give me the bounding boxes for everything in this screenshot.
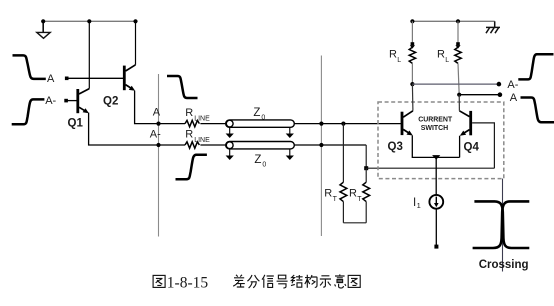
caption char yi (意) bbox=[335, 274, 346, 288]
input terminal A bbox=[65, 77, 69, 81]
wire Q4 base return bbox=[366, 167, 494, 169]
reference plane line 1 bbox=[158, 74, 160, 237]
node RT2 / Q4 base return bbox=[364, 166, 368, 170]
wire Q2 collector riser bbox=[135, 21, 137, 65]
transistor Q2 bbox=[123, 65, 136, 91]
svg-text:1-8-15: 1-8-15 bbox=[167, 275, 209, 292]
resistor RT1 bbox=[340, 124, 347, 223]
node TL1/plane2 bbox=[319, 122, 323, 126]
wire RL1 to Q3 collector bbox=[411, 84, 414, 111]
wire Q1 collector riser bbox=[88, 21, 90, 88]
wire TL1 to Q3 base bbox=[294, 123, 401, 125]
terminal A- out bbox=[497, 82, 502, 87]
wire Q3 emitter to common node bbox=[412, 136, 459, 158]
node A on plane 1 bbox=[156, 122, 160, 126]
wire input A to Q2 base bbox=[67, 77, 123, 79]
waveform A- input (rising edge) bbox=[12, 99, 45, 124]
node I1 return end bbox=[434, 245, 438, 249]
wire A output bbox=[459, 94, 500, 96]
node dot rail / Q2 collector bbox=[133, 19, 137, 23]
resistor RL2 bbox=[455, 21, 461, 94]
wire Q4 emitter to common node bbox=[459, 136, 461, 158]
waveform A- at plane 1 (rising edge) bbox=[176, 155, 207, 180]
wire top-right supply rail bbox=[412, 20, 494, 22]
caption char xin (信) bbox=[262, 275, 274, 288]
wire TL2 to corner bbox=[294, 144, 366, 146]
reference plane line 2 bbox=[320, 56, 322, 237]
crossing reference vertical bbox=[502, 179, 504, 272]
caption char gou (构) bbox=[305, 275, 317, 288]
transmission line Z0 (upper) bbox=[226, 120, 295, 134]
caption char cha (差) bbox=[233, 275, 245, 287]
ground bbox=[37, 21, 50, 38]
wire RL2 to Q4 collector bbox=[458, 95, 460, 111]
transistor Q3 bbox=[401, 111, 413, 136]
wire top-left supply rail bbox=[42, 20, 138, 22]
input terminal A- bbox=[64, 99, 68, 103]
node rail / RL1 bbox=[410, 19, 414, 23]
node RL1 / A- out bbox=[410, 82, 414, 86]
current source I1 bbox=[429, 195, 443, 209]
node rail / RL2 bbox=[456, 19, 460, 23]
caption char fen (分) bbox=[247, 275, 259, 288]
wire RLINE1 to TL1 bbox=[200, 123, 226, 125]
node TL2/plane2 bbox=[319, 143, 323, 147]
node dot at ground tap bbox=[41, 19, 45, 23]
waveform A output (falling edge) bbox=[521, 98, 554, 123]
dashed box current switch bbox=[378, 102, 504, 179]
wire Q4 base lead bbox=[472, 123, 494, 168]
transistor Q1 bbox=[76, 89, 89, 114]
wire Q2 emitter down to A line bbox=[135, 91, 185, 124]
node common emitter bbox=[432, 155, 440, 160]
caption char tu 2 (图) bbox=[348, 275, 360, 287]
caption char shi (示) bbox=[320, 276, 331, 287]
node RL2 / A out bbox=[457, 93, 461, 97]
wire A- output bbox=[412, 83, 499, 85]
waveform A at plane 1 (falling edge) bbox=[167, 76, 198, 98]
resistor RL1 bbox=[409, 21, 415, 84]
wire input A- to Q1 base bbox=[66, 100, 77, 102]
node A- on plane 1 bbox=[156, 143, 160, 147]
transmission line Z0 (lower) bbox=[226, 142, 295, 156]
terminal A out bbox=[498, 92, 503, 97]
waveform A- output (rising edge) bbox=[518, 54, 553, 79]
caption char tu (图) bbox=[153, 275, 165, 287]
node dot rail / Q1 collector bbox=[87, 19, 91, 23]
wire common emitter to I1 bbox=[435, 157, 437, 195]
node RT1 tap bbox=[341, 122, 345, 126]
resistor RLINE2 bbox=[185, 142, 199, 148]
wire I1 to return bbox=[435, 209, 437, 246]
resistor RT2 bbox=[363, 168, 370, 223]
crossing waveform bbox=[473, 201, 530, 248]
wire RT bottoms join bbox=[343, 222, 366, 224]
wire Q1 emitter down to A- line bbox=[89, 113, 185, 145]
resistor RLINE1 bbox=[185, 120, 199, 126]
wire corner down to RT2 node bbox=[365, 145, 367, 168]
caption char jie (结) bbox=[291, 275, 303, 287]
wire RLINE2 to TL2 bbox=[200, 144, 226, 146]
chassis ground bbox=[486, 21, 500, 33]
waveform A input (falling edge) bbox=[13, 55, 46, 79]
caption char hao (号) bbox=[277, 275, 288, 288]
transistor Q4 bbox=[459, 111, 472, 136]
